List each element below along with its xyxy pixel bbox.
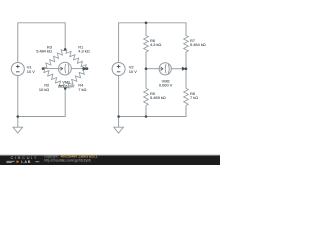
svg-text:10 kΩ: 10 kΩ bbox=[39, 87, 49, 92]
svg-text:10 V: 10 V bbox=[27, 69, 35, 74]
svg-text:0.000 V: 0.000 V bbox=[159, 83, 173, 88]
svg-text:5.489 kΩ: 5.489 kΩ bbox=[150, 95, 166, 100]
svg-text:4.3 kΩ: 4.3 kΩ bbox=[78, 49, 89, 54]
svg-text:263.6 mV: 263.6 mV bbox=[58, 84, 75, 89]
svg-text:7 kΩ: 7 kΩ bbox=[78, 87, 86, 92]
svg-text:5.484 kΩ: 5.484 kΩ bbox=[190, 42, 206, 47]
svg-text:5.484 kΩ: 5.484 kΩ bbox=[36, 49, 52, 54]
svg-text:http://circuitlab.com/cpp76s2y: http://circuitlab.com/cpp76s2yh6 bbox=[44, 159, 91, 163]
svg-text:LAB: LAB bbox=[21, 160, 31, 164]
svg-text:10 V: 10 V bbox=[129, 69, 137, 74]
svg-text:7 kΩ: 7 kΩ bbox=[190, 95, 198, 100]
svg-text:4.3 kΩ: 4.3 kΩ bbox=[150, 42, 161, 47]
